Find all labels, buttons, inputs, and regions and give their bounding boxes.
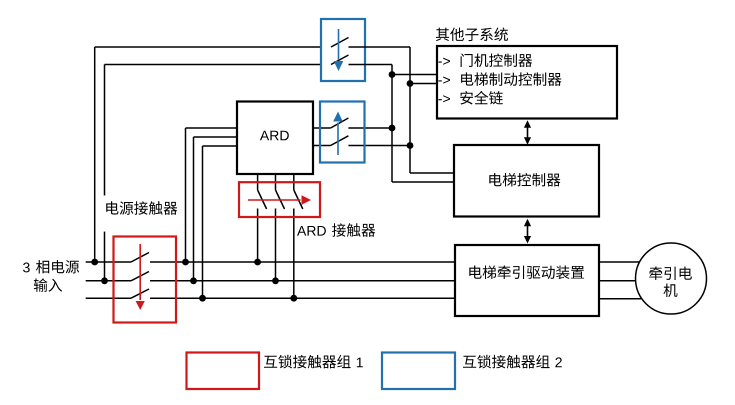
bus L1 (86, 261, 455, 263)
label 其他子系统 (436, 28, 508, 42)
contactor K2 (interlock contactor group 2, upper) (321, 19, 410, 81)
wire: bus L3 tap to ARD input 3 (203, 146, 238, 298)
bidirectional link: elevator controller <-> traction drive (524, 219, 531, 244)
junction bus L2 / top feed (101, 277, 108, 284)
junction bus L3 / ARD return (290, 295, 297, 302)
label background for 电源接触器 (97, 196, 183, 232)
label 机 (664, 284, 678, 298)
contactor K3 (interlock contactor group 2, lower, at ARD output) (320, 102, 365, 163)
legend swatch: interlock contactor group 1 (red) (187, 353, 260, 390)
label 互锁接触器组 2 (463, 355, 562, 369)
junction bus L2 / ARD tap (190, 277, 197, 284)
junction at (410,83.5) (407, 80, 414, 87)
junction at (392,128) (389, 125, 396, 132)
contactor K1 (power contactor, red) (114, 237, 177, 323)
label 3 相电源 (23, 260, 79, 274)
label 输入 (34, 278, 62, 292)
elevator controller box 电梯控制器 (454, 145, 599, 217)
motor feed wires to traction motor (599, 262, 660, 299)
label ARD 接触器 (297, 223, 375, 237)
bus L2 (86, 280, 455, 282)
wire: branch to other subsystems row 2 (410, 83, 437, 85)
wire: ARD output lower to node x=410 (313, 145, 410, 147)
wire: L2 drop to elevator controller (node x=392) (392, 65, 454, 183)
label 电梯控制器 (489, 173, 560, 187)
legend swatch: interlock contactor group 2 (blue) (382, 353, 455, 390)
wire: top feed L1 from bus L1 to interlock contactor group 2 (95, 47, 331, 262)
label ARD (260, 131, 289, 141)
junction at (392,74.5) (389, 71, 396, 78)
label -> 安全链 (438, 91, 502, 105)
wire: bus L1 tap to ARD input 1 (186, 128, 238, 262)
label 牵引电 (649, 267, 692, 281)
junction bus L1 / top feed (91, 259, 98, 266)
label -> 门机控制器 (438, 54, 532, 67)
wire: branch to other subsystems row 1 (392, 74, 437, 76)
label 电源接触器 (106, 201, 177, 215)
contactor K4 (ARD contactor, red) (239, 182, 320, 217)
ARD unit box (237, 102, 313, 175)
traction drive box 电梯牵引驱动装置 (455, 245, 599, 316)
bus L3 (86, 297, 455, 299)
traction motor 牵引电机 (636, 243, 707, 314)
wire: bus L2 tap to ARD input 2 (194, 137, 238, 281)
wire: L1 drop to elevator controller (node x=410) (410, 47, 454, 173)
wire: ARD phase 3 down to bus L3 (294, 174, 303, 298)
junction bus L3 / ARD tap (199, 295, 206, 302)
other subsystems box 其他子系统 (437, 46, 617, 119)
junction bus L2 / ARD return (272, 277, 279, 284)
wire: top feed L2 from bus L2 to interlock contactor group 2 (105, 65, 332, 281)
wire: ARD phase 2 down to bus L2 (276, 174, 285, 281)
junction at (410,145.5) (407, 142, 414, 149)
junction bus L1 / ARD tap (182, 259, 189, 266)
wire: ARD output upper to node x=392 (313, 127, 392, 129)
junction bus L1 / ARD return (254, 259, 261, 266)
bidirectional link: other subsystems <-> elevator controller (524, 120, 531, 145)
label -> 电梯制动控制器 (438, 72, 561, 86)
wire: ARD phase 1 down to bus L1 (258, 174, 267, 262)
label 互锁接触器组 1 (264, 355, 363, 369)
label 电梯牵引驱动装置 (469, 266, 584, 280)
